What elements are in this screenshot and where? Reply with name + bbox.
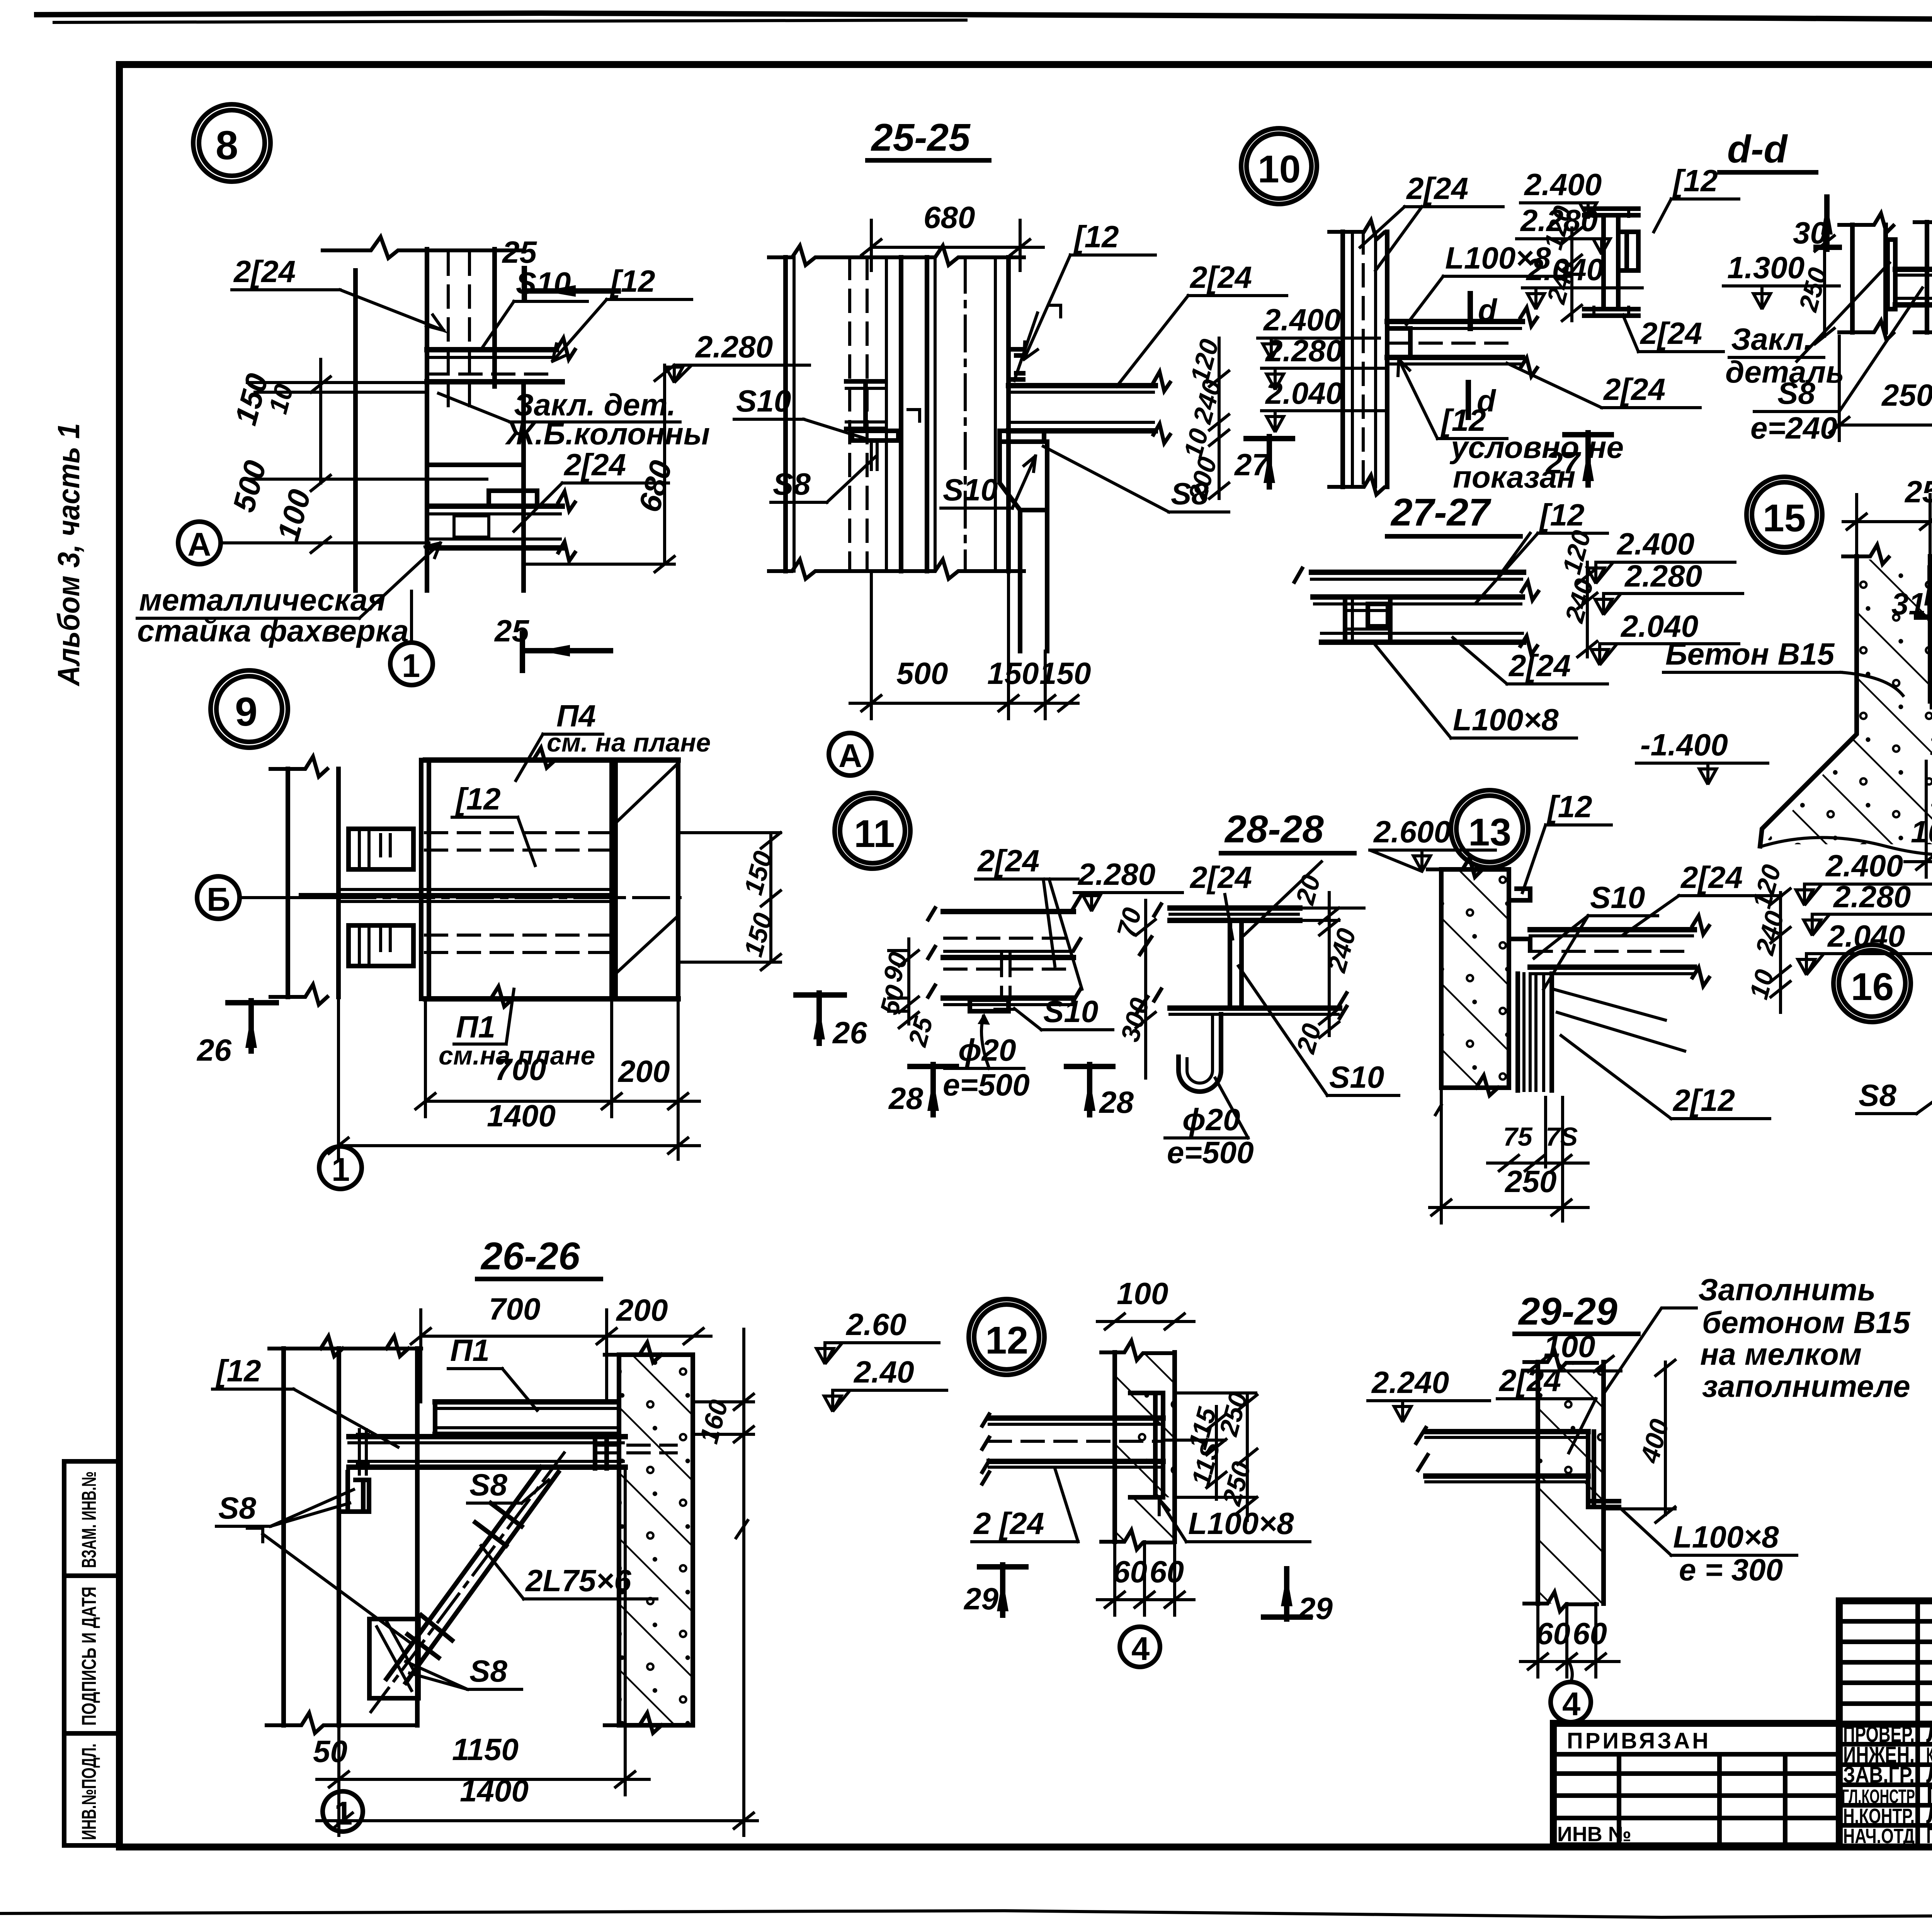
svg-text:500: 500: [896, 656, 948, 690]
concrete column below beam: [1000, 442, 1047, 651]
svg-text:S10: S10: [736, 384, 791, 418]
axis circle 4 29-29: [1551, 1682, 1591, 1722]
I-beam with channel: [1584, 209, 1638, 215]
connector plates left: [349, 829, 413, 869]
svg-text:2.400: 2.400: [1263, 303, 1341, 337]
svg-text:бетоном В15: бетоном В15: [1702, 1305, 1911, 1340]
wall 29-29: [1538, 1362, 1604, 1482]
svg-text:2 [24: 2 [24: [973, 1506, 1044, 1541]
platform П1: [435, 1399, 618, 1405]
svg-text:13: 13: [1468, 811, 1511, 854]
svg-text:2[24: 2[24: [233, 254, 296, 289]
svg-text:ПРИВЯЗАН: ПРИВЯЗАН: [1567, 1728, 1711, 1753]
svg-text:250: 250: [1504, 1164, 1556, 1199]
svg-text:e=500: e=500: [943, 1068, 1030, 1102]
svg-text:e = 300: e = 300: [1679, 1553, 1783, 1587]
svg-text:S8: S8: [469, 1468, 507, 1502]
svg-text:2[24: 2[24: [1189, 260, 1252, 294]
angle clip at wall: [1387, 328, 1410, 357]
svg-text:29: 29: [963, 1582, 998, 1616]
svg-text:2.400: 2.400: [1524, 167, 1602, 202]
beam from wall: [1387, 319, 1522, 324]
right boundary dim line: [742, 1329, 745, 1725]
svg-text:27: 27: [1545, 446, 1581, 480]
bolts on beam left: [357, 1430, 368, 1474]
svg-text:[12: [12: [1546, 789, 1592, 824]
svg-text:S10: S10: [943, 473, 998, 507]
svg-text:10: 10: [1258, 148, 1301, 191]
svg-text:27-27: 27-27: [1390, 491, 1492, 534]
svg-text:29-29: 29-29: [1518, 1290, 1617, 1333]
left attach table: [1553, 1723, 1839, 1846]
svg-text:2.040: 2.040: [1827, 919, 1905, 953]
plate with bolt d11: [970, 1000, 1009, 1011]
svg-text:75: 75: [1503, 1122, 1533, 1151]
leaders to channel: [1553, 989, 1685, 1051]
dashed channel flanges: [425, 833, 612, 952]
top flange 28-28: [1170, 905, 1300, 911]
svg-text:1400: 1400: [460, 1774, 529, 1808]
svg-text:2[24: 2[24: [1639, 316, 1702, 350]
end plate: [1888, 240, 1895, 309]
SECTION 28-28: [1074, 808, 1495, 1170]
svg-text:500: 500: [226, 457, 273, 515]
svg-text:1: 1: [402, 648, 420, 684]
svg-text:700: 700: [495, 1052, 546, 1087]
svg-text:S8: S8: [773, 467, 811, 501]
svg-text:50: 50: [313, 1734, 347, 1769]
svg-text:S10: S10: [516, 266, 571, 300]
axis circle 4 d12: [1120, 1627, 1160, 1667]
svg-text:60: 60: [1573, 1616, 1607, 1651]
weld mark 26-26: [247, 1528, 410, 1642]
upper revision grid rows: [1839, 1619, 1932, 1624]
axis circle 1: [390, 643, 433, 685]
svg-text:28: 28: [1099, 1085, 1134, 1119]
anchor plate on column: [427, 382, 524, 465]
svg-text:Альбом 3, часть 1: Альбом 3, часть 1: [51, 423, 86, 687]
wing wall diagonals: [616, 763, 678, 974]
svg-text:НАЧ.ОТД: НАЧ.ОТД: [1843, 1825, 1915, 1848]
svg-text:ГЛ.КОНСТР: ГЛ.КОНСТР: [1842, 1786, 1915, 1807]
svg-text:160: 160: [694, 1396, 734, 1446]
beam lines through plan: [338, 889, 612, 901]
svg-text:ИНВ №: ИНВ №: [1557, 1823, 1631, 1846]
svg-text:8: 8: [216, 123, 238, 168]
svg-text:S8: S8: [469, 1654, 507, 1688]
diagonal leader top right: [1244, 862, 1321, 935]
svg-text:заполнителе: заполнителе: [1702, 1369, 1910, 1403]
node circle 16: [1833, 945, 1911, 1022]
DETAIL 9: [196, 670, 867, 1189]
svg-text:2.400: 2.400: [1825, 849, 1903, 883]
axis A circle: [178, 522, 221, 564]
svg-text:1: 1: [332, 1151, 350, 1188]
svg-text:25-25: 25-25: [871, 116, 971, 159]
angle in wall d12: [1130, 1393, 1163, 1497]
svg-text:60: 60: [1536, 1616, 1570, 1651]
svg-text:S8: S8: [1171, 476, 1209, 511]
big plan rectangle: [425, 760, 678, 999]
svg-text:-1.400: -1.400: [1640, 728, 1728, 762]
svg-text:60: 60: [1113, 1554, 1147, 1589]
svg-text:15: 15: [1763, 497, 1806, 540]
title block outer lines: [1839, 1597, 1932, 1604]
beam 2C24 top detail8: [427, 347, 556, 352]
svg-text:300: 300: [1115, 995, 1155, 1044]
section marks d: [1468, 294, 1473, 328]
svg-text:12: 12: [985, 1319, 1028, 1362]
seat plate left column: [852, 431, 898, 440]
svg-text:2.280: 2.280: [695, 330, 773, 364]
node circle 10: [1241, 128, 1317, 204]
SECTION 29-29: [1368, 1272, 1911, 1723]
svg-text:[12: [12: [1539, 498, 1585, 532]
wall d12 upper hatched: [1115, 1352, 1175, 1393]
channel clip top: [1509, 889, 1530, 951]
svg-text:2L75×6: 2L75×6: [525, 1563, 631, 1598]
svg-text:150: 150: [987, 656, 1039, 690]
SECTION d-d: [1517, 128, 1844, 389]
svg-text:e=240: e=240: [1750, 411, 1837, 445]
svg-text:на мелком: на мелком: [1700, 1337, 1862, 1371]
vertical dim chain: [1218, 338, 1221, 498]
axis circle 1 26-26: [323, 1791, 363, 1832]
svg-text:26-26: 26-26: [480, 1235, 580, 1278]
svg-text:металлическая: металлическая: [139, 583, 386, 617]
svg-text:200: 200: [616, 1293, 668, 1327]
svg-text:2[24: 2[24: [563, 447, 626, 482]
svg-text:2.240: 2.240: [1371, 1365, 1449, 1400]
left stamp box ВЗАМ ИНВ: [64, 1461, 119, 1576]
axis circle 1: [319, 1146, 362, 1189]
beam d14: [1895, 269, 1932, 305]
svg-text:Закл.: Закл.: [1731, 322, 1812, 356]
svg-text:28: 28: [888, 1081, 923, 1116]
beam lines d11: [943, 909, 1073, 914]
column top break line: [323, 237, 522, 258]
svg-text:ПИСЬМАН: ПИСЬМАН: [1926, 1823, 1932, 1848]
SECTION 26-26: [213, 1235, 947, 1835]
svg-text:2[12: 2[12: [1672, 1083, 1735, 1117]
dashed hole in wall: [595, 1445, 676, 1453]
svg-text:1400: 1400: [487, 1099, 556, 1133]
left stamp box ИНВ № ПОДЛ: [64, 1733, 119, 1845]
DETAIL 8: [137, 104, 810, 685]
DETAIL 14: [1723, 108, 1932, 445]
svg-text:2.280: 2.280: [1833, 879, 1911, 914]
column of fachwerk: verticals: [353, 270, 358, 590]
svg-text:2.40: 2.40: [853, 1355, 914, 1389]
beam 29-29: [1426, 1429, 1588, 1434]
node circle 8: [193, 104, 270, 182]
svg-text:250: 250: [1881, 378, 1932, 412]
left stamp box ПОДПИСЬ И ДАТА: [64, 1576, 119, 1733]
svg-text:29: 29: [1298, 1591, 1333, 1626]
channel clip on right column: [1009, 349, 1023, 379]
svg-text:100: 100: [270, 486, 317, 544]
hanging channel below beam: [1518, 974, 1552, 1090]
weld mark g: [908, 410, 920, 421]
svg-text:20: 20: [1290, 872, 1327, 908]
svg-text:1.300: 1.300: [1727, 250, 1804, 285]
svg-text:2.280: 2.280: [1624, 559, 1702, 593]
svg-text:d: d: [1478, 293, 1498, 327]
weld mark: [1049, 305, 1061, 317]
svg-text:4: 4: [1562, 1686, 1580, 1723]
svg-text:100: 100: [1117, 1276, 1168, 1311]
svg-text:А: А: [187, 526, 211, 563]
svg-text:2[24: 2[24: [977, 844, 1039, 878]
angle in wall 29-29: [1588, 1432, 1619, 1507]
svg-text:200: 200: [617, 1054, 670, 1088]
svg-text:L100×8: L100×8: [1453, 702, 1559, 737]
svg-text:150: 150: [1039, 656, 1091, 690]
concrete wall d13: [1441, 869, 1509, 1088]
svg-text:[12: [12: [215, 1354, 261, 1388]
svg-text:250: 250: [1904, 474, 1932, 509]
leader to Закл деталь d14: [1797, 263, 1889, 361]
concrete wall right 26-26: [619, 1355, 693, 1725]
left wall d14: [1850, 225, 1855, 332]
upper revision grid verticals: [1915, 1601, 1920, 1846]
svg-text:[12: [12: [1672, 163, 1718, 198]
dim guide lines left: [247, 381, 427, 384]
svg-text:700: 700: [489, 1292, 540, 1326]
svg-text:680: 680: [632, 457, 679, 515]
DETAIL 10: [1241, 128, 1700, 495]
svg-text:2[24: 2[24: [1189, 860, 1252, 895]
node circle 15: [1747, 477, 1822, 553]
plan outer wall verticals: [286, 769, 290, 997]
svg-text:2[24: 2[24: [1680, 860, 1743, 895]
svg-text:28-28: 28-28: [1224, 808, 1324, 851]
svg-text:S10: S10: [1329, 1060, 1384, 1094]
dim vertical line: [319, 359, 322, 483]
beam d12: [989, 1415, 1163, 1421]
svg-text:400: 400: [1635, 1416, 1675, 1466]
wire: scan bottom edge line: [0, 1911, 1932, 1917]
svg-text:Бетон В15: Бетон В15: [1665, 637, 1835, 671]
beam 26-26: [349, 1434, 625, 1439]
beam to right of column: [1009, 383, 1155, 388]
DETAIL 12: [963, 1276, 1333, 1667]
node circle 11: [835, 793, 910, 869]
svg-text:2[24: 2[24: [1603, 372, 1665, 406]
svg-text:см. на плане: см. на плане: [547, 728, 711, 757]
web pair: [1230, 920, 1242, 1008]
svg-text:Заполнить: Заполнить: [1698, 1272, 1876, 1307]
svg-text:10: 10: [1744, 966, 1780, 1002]
svg-text:2.60: 2.60: [845, 1307, 906, 1342]
svg-text:26: 26: [832, 1015, 867, 1050]
svg-text:2.040: 2.040: [1265, 376, 1343, 410]
staff rows: [1839, 1742, 1932, 1747]
svg-text:ЗАВ.ГР.: ЗАВ.ГР.: [1843, 1762, 1915, 1787]
svg-text:П1: П1: [450, 1333, 490, 1367]
svg-text:d-d: d-d: [1727, 128, 1788, 171]
svg-text:9: 9: [235, 689, 257, 735]
clip plate under beam left: [339, 1467, 369, 1512]
beam d13: [1530, 927, 1694, 932]
svg-text:А: А: [838, 738, 862, 774]
lower beam 2C24: [429, 503, 562, 509]
svg-text:70: 70: [1111, 905, 1147, 940]
svg-text:Б: Б: [207, 881, 230, 918]
svg-text:ВЗАМ. ИНВ.№: ВЗАМ. ИНВ.№: [78, 1471, 100, 1568]
svg-text:e=500: e=500: [1167, 1135, 1254, 1170]
svg-text:S8: S8: [1859, 1078, 1896, 1112]
TITLE BLOCK: [1553, 1601, 1932, 1895]
svg-text:2.600: 2.600: [1373, 815, 1451, 849]
diagonal brace 26-26: [386, 1467, 558, 1683]
hook bolt 28-28: [1179, 1014, 1221, 1092]
channel C12 hooked on web: [1618, 232, 1638, 270]
svg-text:680: 680: [923, 200, 975, 235]
DETAIL 15: [1636, 474, 1932, 877]
node circle 12: [969, 1299, 1044, 1375]
concrete tank wall mass: [1760, 556, 1932, 846]
I-beam section inside left column: [846, 381, 885, 429]
svg-text:ИНВ.№ПОДЛ.: ИНВ.№ПОДЛ.: [78, 1743, 100, 1840]
bottom flange 28-28: [1170, 1005, 1340, 1011]
svg-text:16: 16: [1851, 965, 1894, 1009]
svg-text:L100×8: L100×8: [1673, 1520, 1779, 1554]
beam top pair: [1311, 570, 1524, 575]
svg-text:S8: S8: [218, 1491, 256, 1525]
wall verticals 26-26: [281, 1349, 286, 1725]
svg-text:2.280: 2.280: [1077, 857, 1155, 891]
svg-text:1150: 1150: [452, 1732, 519, 1767]
DETAIL 16: [1833, 923, 1932, 1244]
bottom gusset box: [369, 1619, 418, 1698]
svg-text:100: 100: [1911, 815, 1932, 849]
svg-text:2[24: 2[24: [1508, 648, 1571, 683]
svg-text:Н.КОНТР.: Н.КОНТР.: [1843, 1804, 1915, 1828]
node circle 9: [211, 670, 288, 748]
svg-text:4: 4: [1131, 1631, 1150, 1667]
svg-text:S10: S10: [1043, 994, 1098, 1029]
end channel section: [1345, 597, 1390, 642]
svg-text:2[24: 2[24: [1406, 171, 1468, 206]
DETAIL 25-25: [734, 116, 1383, 776]
SECTION 27-27: [1294, 491, 1743, 738]
wall verticals with hatch ticks: [1340, 232, 1345, 487]
right column verticals: [925, 257, 929, 571]
left column verticals: [783, 257, 788, 571]
axis B circle: [197, 876, 240, 919]
weld plate under beam: [1000, 431, 1044, 442]
right column d14: [1925, 222, 1929, 332]
svg-text:S8: S8: [1777, 376, 1815, 410]
svg-text:[12: [12: [1073, 219, 1119, 254]
plate pair left of big rect: [421, 760, 429, 999]
wire: scan top edge lines: [37, 13, 1932, 23]
svg-text:60: 60: [1150, 1554, 1184, 1589]
node circle 13: [1451, 790, 1528, 867]
svg-text:1: 1: [334, 1795, 352, 1832]
svg-text:[12: [12: [609, 264, 655, 298]
DETAIL 13: [1428, 789, 1932, 1223]
svg-text:П1: П1: [456, 1010, 495, 1044]
lower column part: [427, 465, 524, 590]
svg-text:2.280: 2.280: [1265, 333, 1343, 368]
axis circle A: [829, 733, 871, 776]
top boundary line: [269, 1336, 421, 1356]
svg-text:[12: [12: [455, 782, 501, 816]
svg-text:S10: S10: [1590, 880, 1645, 915]
svg-text:11: 11: [854, 812, 895, 855]
svg-text:2.400: 2.400: [1616, 527, 1694, 561]
svg-text:ПОДПИСЬ И ДАТЯ: ПОДПИСЬ И ДАТЯ: [78, 1587, 100, 1726]
svg-text:26: 26: [196, 1033, 231, 1067]
DETAIL 11: [835, 793, 1134, 1119]
